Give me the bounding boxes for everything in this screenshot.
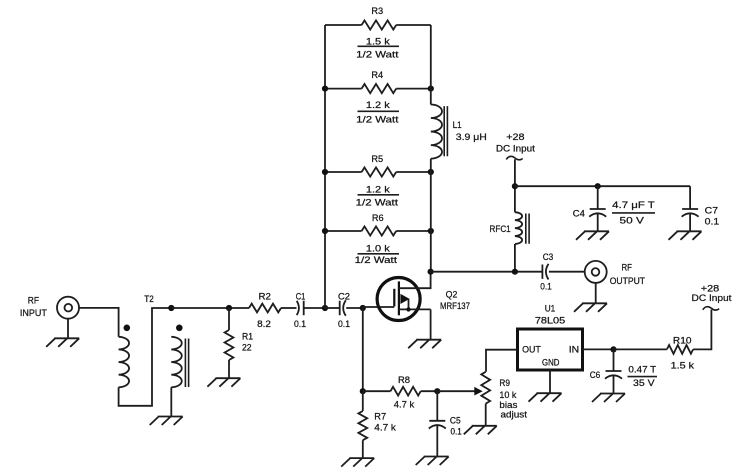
node C1-C2 junction: [322, 305, 328, 311]
transformer T2 core: [185, 339, 188, 388]
node R4 right: [428, 86, 434, 92]
node drain junction: [428, 269, 434, 275]
capacitor C5: [429, 415, 462, 437]
ground at C6: [592, 394, 625, 403]
resistor R1: [225, 330, 253, 360]
svg-text:0.47 T: 0.47 T: [628, 363, 656, 374]
ground at Q2 source: [408, 340, 441, 349]
svg-text:MRF137: MRF137: [440, 300, 470, 311]
svg-text:22: 22: [242, 342, 252, 353]
svg-text:DC Input: DC Input: [692, 292, 732, 303]
svg-text:0.1: 0.1: [540, 281, 552, 292]
svg-text:DC Input: DC Input: [496, 143, 535, 154]
svg-text:8.2: 8.2: [257, 318, 271, 329]
svg-text:RF: RF: [621, 261, 632, 272]
node IN junction: [610, 346, 616, 352]
capacitor C6: [590, 363, 657, 388]
wire source to ground: [430, 309, 432, 339]
node R5 left: [322, 169, 328, 175]
capacitor C3: [540, 251, 553, 292]
ground at RF input: [46, 338, 79, 347]
potentiometer R9: [481, 372, 527, 420]
svg-text:1/2 Watt: 1/2 Watt: [356, 114, 399, 125]
svg-text:RFC1: RFC1: [490, 223, 511, 234]
wire C4 bottom lead: [597, 214, 599, 232]
wire decoupling bus: [515, 185, 690, 187]
ground at T2 secondary: [150, 417, 183, 426]
svg-text:R6: R6: [372, 212, 384, 223]
wire U1 IN lead: [583, 348, 614, 350]
svg-text:C1: C1: [296, 291, 306, 302]
ground at RF output: [574, 303, 607, 312]
resistor R5: [325, 153, 431, 208]
wire bus corner to C7: [689, 186, 691, 209]
svg-text:R4: R4: [371, 69, 383, 80]
svg-text:50 V: 50 V: [620, 215, 645, 226]
svg-text:R8: R8: [398, 374, 410, 385]
wire J2 to ground: [595, 283, 597, 303]
node R1 junction: [226, 305, 232, 311]
wire R1 bottom lead: [228, 360, 230, 378]
resistor R2: [249, 291, 281, 330]
wire T2 primary return: [119, 308, 172, 406]
svg-text:1/2 Watt: 1/2 Watt: [356, 49, 399, 60]
wire C1 to node: [304, 307, 325, 309]
svg-text:R7: R7: [374, 411, 386, 422]
capacitor C7: [682, 205, 720, 227]
node RFC1 junction: [512, 269, 518, 275]
wire C5 bottom lead: [436, 425, 438, 456]
wire R8 to C5 node: [421, 390, 438, 392]
wire +28 to bus: [514, 159, 516, 212]
svg-text:C2: C2: [338, 291, 350, 302]
svg-text:1.5 k: 1.5 k: [671, 359, 695, 370]
svg-text:RF: RF: [28, 294, 39, 305]
resistor R4: [325, 69, 431, 125]
wire C6 bottom lead: [613, 376, 615, 394]
svg-text:1.2 k: 1.2 k: [366, 184, 390, 195]
wire T2 to R2: [171, 307, 249, 309]
wire C6 top lead: [613, 349, 615, 371]
svg-text:1.0 k: 1.0 k: [366, 243, 390, 254]
ground at R7: [341, 458, 374, 467]
svg-text:35 V: 35 V: [633, 377, 655, 388]
svg-text:0.1: 0.1: [338, 318, 350, 329]
net +28 DC input top: [496, 131, 535, 160]
svg-text:4.7 μF T: 4.7 μF T: [612, 199, 655, 210]
wire R7 top lead: [362, 391, 364, 411]
svg-text:78L05: 78L05: [535, 314, 565, 325]
wire R9 bottom lead: [485, 404, 487, 426]
ground at U1: [529, 393, 562, 402]
svg-text:IN: IN: [569, 343, 579, 354]
capacitor C1: [294, 291, 306, 330]
node R6 left: [322, 228, 328, 234]
wire bias to R8: [363, 390, 391, 392]
resistor R7: [358, 411, 396, 441]
svg-text:R3: R3: [371, 5, 383, 16]
svg-text:R1: R1: [242, 331, 253, 342]
svg-text:1/2 Watt: 1/2 Watt: [355, 254, 398, 265]
svg-text:Q2: Q2: [446, 289, 458, 300]
wire C3 to J2: [549, 271, 585, 273]
svg-text:4.7 k: 4.7 k: [374, 421, 396, 432]
wire T2 secondary to ground: [170, 387, 172, 416]
connector J1 RF input: [20, 294, 79, 318]
node R6 right: [428, 228, 434, 234]
resistor R8: [391, 374, 421, 410]
wire IN to R10: [614, 348, 667, 350]
svg-text:1/2 Watt: 1/2 Watt: [356, 196, 399, 207]
wire R2 to C1: [281, 307, 297, 309]
svg-text:R9: R9: [499, 377, 510, 388]
wire bias rail: [362, 308, 364, 391]
svg-text:C5: C5: [450, 415, 461, 426]
node bias junction: [360, 388, 366, 394]
resistor R3: [325, 5, 431, 60]
wire J1 to T2 primary: [79, 308, 119, 337]
svg-text:3.9 μH: 3.9 μH: [456, 131, 487, 142]
svg-text:C6: C6: [590, 369, 601, 380]
wire U1 GND lead: [549, 370, 551, 393]
wire R10 to +28: [693, 310, 711, 350]
svg-text:R10: R10: [673, 335, 692, 346]
wire right rail lower: [430, 159, 432, 272]
svg-text:C3: C3: [543, 251, 554, 262]
transformer T2 secondary winding: [171, 337, 181, 388]
svg-text:1.5 k: 1.5 k: [366, 35, 390, 46]
node gate junction: [360, 305, 366, 311]
wire RFC1 to output line: [514, 244, 516, 272]
svg-text:0.1: 0.1: [451, 425, 462, 436]
wire ladder left rail: [324, 25, 326, 308]
transformer T2 primary phase dot: [124, 325, 131, 332]
wire U1 OUT to R9: [486, 350, 518, 372]
svg-text:R2: R2: [259, 291, 271, 302]
svg-text:U1: U1: [545, 303, 556, 314]
connector J2 RF output: [585, 261, 646, 286]
wire C7 bottom lead: [689, 214, 691, 232]
wire C4 top lead: [597, 186, 599, 209]
transformer T2 secondary phase dot: [176, 325, 183, 332]
ground at C7: [669, 231, 702, 240]
node +28 bus left: [512, 183, 518, 189]
node T2 secondary top: [168, 305, 174, 311]
resistor R10: [667, 335, 694, 371]
node R4 left: [322, 86, 328, 92]
wire R1 top lead: [228, 308, 230, 330]
choke RFC1: [490, 212, 530, 244]
ground at C4: [576, 231, 609, 240]
svg-text:OUT: OUT: [522, 343, 541, 354]
wire wiper to R9: [437, 390, 475, 392]
wire gate lead: [363, 306, 395, 308]
wire C2 to gate node: [346, 307, 363, 309]
capacitor C2: [338, 291, 350, 330]
ground at R9: [464, 426, 497, 435]
wire right rail upper: [430, 25, 432, 105]
svg-text:R5: R5: [371, 153, 383, 164]
wire node to C2: [325, 307, 340, 309]
net +28 DC input bottom: [692, 282, 732, 310]
capacitor C4: [573, 199, 655, 226]
wire J1 to ground: [67, 319, 69, 339]
potentiometer R9 wiper arrow: [475, 388, 482, 395]
svg-text:GND: GND: [542, 356, 560, 367]
node C5 junction: [434, 388, 440, 394]
ground at C5: [416, 457, 449, 466]
svg-text:1.2 k: 1.2 k: [366, 99, 390, 110]
wire R7 bottom lead: [362, 440, 364, 458]
node C4 junction: [595, 183, 601, 189]
svg-text:INPUT: INPUT: [20, 307, 47, 318]
wire drain to C3: [431, 271, 543, 273]
svg-text:C7: C7: [705, 205, 718, 216]
inductor L1: [431, 105, 487, 159]
regulator U1 78L05: [518, 303, 583, 370]
svg-text:0.1: 0.1: [705, 216, 720, 227]
wire C5 top lead: [436, 391, 438, 421]
transformer T2 primary winding: [119, 337, 129, 388]
svg-text:L1: L1: [453, 119, 462, 130]
svg-text:0.1: 0.1: [294, 318, 306, 329]
resistor R6: [325, 212, 431, 265]
svg-text:T2: T2: [144, 293, 154, 304]
svg-text:adjust: adjust: [501, 409, 528, 420]
node R5 right: [428, 169, 434, 175]
svg-text:4.7 k: 4.7 k: [394, 399, 415, 410]
svg-text:OUTPUT: OUTPUT: [610, 275, 646, 286]
transistor Q2 MRF137: [377, 272, 470, 321]
svg-text:+28: +28: [506, 131, 524, 142]
svg-text:C4: C4: [573, 208, 585, 219]
ground at R1: [207, 378, 240, 387]
